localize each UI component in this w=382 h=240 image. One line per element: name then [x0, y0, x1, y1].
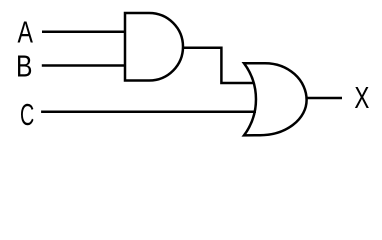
wire AND output to OR input (elbow): [183, 48, 255, 83]
OR gate U2: [244, 63, 307, 135]
svg-text:A: A: [18, 14, 34, 49]
wire B to AND input: [42, 64, 125, 67]
svg-text:C: C: [20, 97, 34, 133]
wire C to OR input: [41, 111, 256, 114]
svg-text:X: X: [354, 80, 369, 115]
AND gate U1: [125, 13, 183, 81]
svg-text:B: B: [16, 49, 32, 83]
wire OR output to X: [306, 97, 342, 100]
wire A to AND input: [42, 31, 125, 34]
